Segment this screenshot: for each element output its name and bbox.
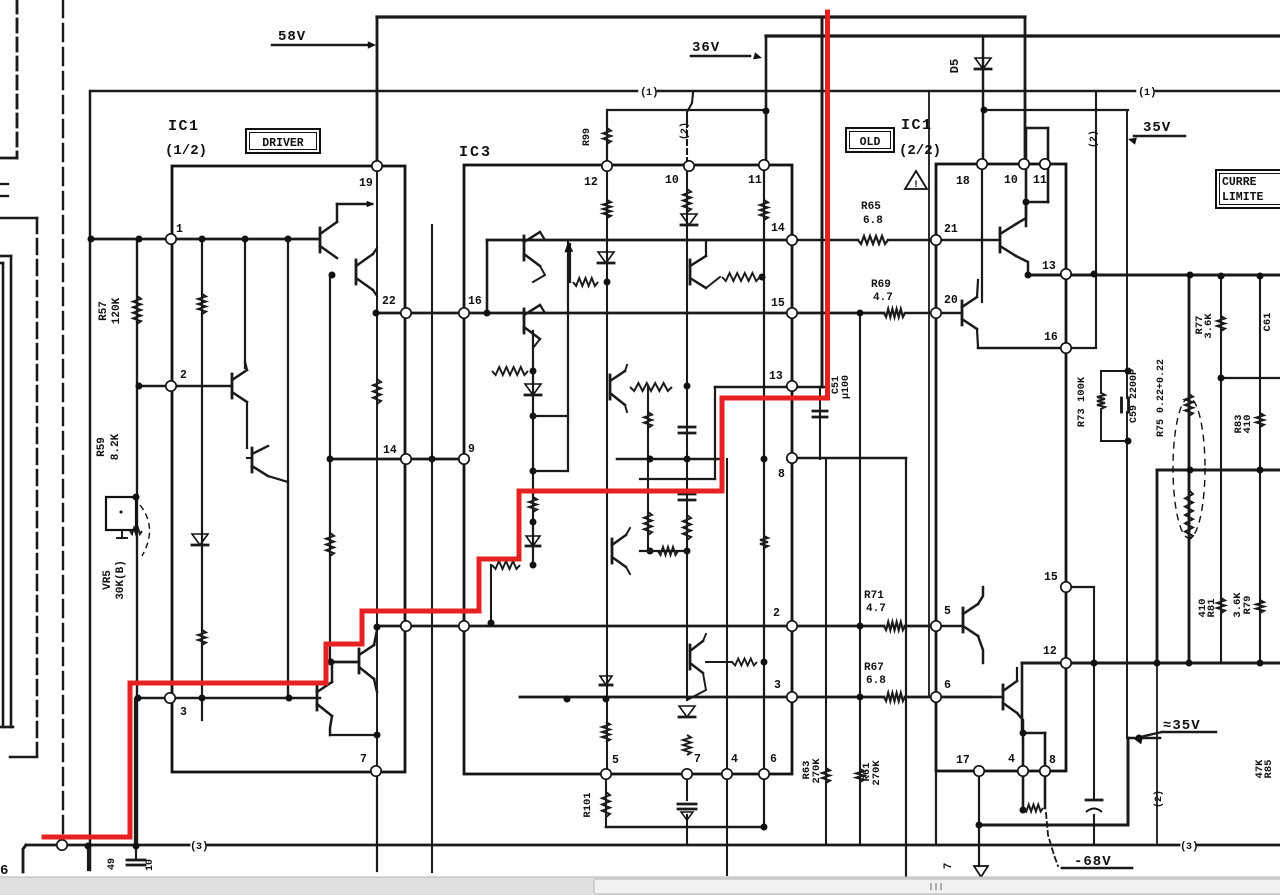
svg-text:49: 49	[107, 858, 118, 870]
svg-text:36V: 36V	[692, 40, 720, 56]
svg-text:C61: C61	[1262, 313, 1274, 332]
svg-text:3.6K: 3.6K	[1203, 313, 1215, 339]
svg-text:15: 15	[1044, 571, 1058, 584]
svg-text:IC1: IC1	[901, 117, 933, 134]
svg-text:16: 16	[1044, 331, 1058, 344]
svg-text:3: 3	[774, 679, 781, 692]
svg-text:4.7: 4.7	[873, 292, 893, 304]
svg-text:DRIVER: DRIVER	[262, 137, 304, 150]
svg-text:1: 1	[176, 223, 183, 236]
svg-text:5: 5	[944, 605, 951, 618]
svg-text:410: 410	[1242, 415, 1254, 434]
svg-text:10: 10	[145, 859, 156, 871]
svg-text:VR5: VR5	[102, 570, 114, 590]
svg-text:13: 13	[769, 370, 783, 383]
svg-text:6: 6	[944, 679, 951, 692]
svg-text:R71: R71	[864, 590, 884, 602]
svg-text:120K: 120K	[111, 297, 123, 324]
svg-text:17: 17	[956, 754, 970, 767]
svg-text:11: 11	[748, 174, 762, 187]
svg-text:(2): (2)	[1153, 790, 1165, 808]
svg-text:OLD: OLD	[860, 136, 881, 149]
svg-text:R59: R59	[96, 437, 108, 457]
svg-text:(2): (2)	[679, 122, 691, 140]
svg-text:10: 10	[665, 174, 679, 187]
svg-text:22: 22	[382, 295, 396, 308]
svg-text:R75 0.22+0.22: R75 0.22+0.22	[1156, 359, 1167, 437]
svg-text:5: 5	[612, 754, 619, 767]
svg-text:4.7: 4.7	[866, 603, 886, 615]
svg-text:58V: 58V	[278, 29, 306, 45]
svg-text:12: 12	[584, 176, 598, 189]
svg-text:6: 6	[770, 753, 777, 766]
svg-text:8: 8	[1049, 754, 1056, 767]
svg-text:21: 21	[944, 223, 958, 236]
svg-text:6.8: 6.8	[863, 215, 883, 227]
svg-text:19: 19	[359, 177, 373, 190]
svg-text:12: 12	[1043, 645, 1057, 658]
svg-text:C59 2200P: C59 2200P	[1129, 369, 1140, 423]
svg-text:): )	[652, 87, 659, 99]
svg-text:R99: R99	[582, 128, 593, 146]
svg-text:): )	[1192, 841, 1199, 853]
svg-text:R101: R101	[582, 792, 594, 817]
svg-text:R85: R85	[1263, 760, 1275, 779]
svg-text:LIMITE: LIMITE	[1222, 191, 1264, 204]
svg-text:30K(B): 30K(B)	[115, 560, 127, 600]
svg-text:!: !	[913, 180, 919, 191]
svg-text:20: 20	[944, 294, 958, 307]
svg-text:IC3: IC3	[459, 144, 492, 161]
svg-text:9: 9	[468, 443, 475, 456]
svg-text:R73 100K: R73 100K	[1076, 376, 1088, 427]
svg-text:): )	[1150, 87, 1157, 99]
svg-text:11: 11	[1033, 174, 1047, 187]
svg-text:(2): (2)	[1088, 130, 1100, 148]
svg-text:14: 14	[383, 444, 397, 457]
svg-text:(1/2): (1/2)	[165, 143, 207, 159]
svg-text:(2/2): (2/2)	[899, 143, 941, 159]
svg-text:2: 2	[180, 369, 187, 382]
svg-text:6.8: 6.8	[866, 675, 886, 687]
svg-text:14: 14	[771, 222, 785, 235]
svg-text:2: 2	[773, 607, 780, 620]
svg-text:8.2K: 8.2K	[110, 433, 122, 460]
svg-text:270K: 270K	[871, 760, 883, 786]
svg-text:7: 7	[943, 863, 955, 870]
svg-text:D5: D5	[948, 59, 962, 73]
svg-text:270K: 270K	[811, 758, 823, 784]
svg-text:R57: R57	[98, 301, 110, 321]
svg-text:35V: 35V	[1143, 120, 1171, 136]
svg-text:16: 16	[468, 295, 482, 308]
svg-text:15: 15	[771, 297, 785, 310]
svg-text:CURRE: CURRE	[1222, 176, 1257, 189]
svg-text:8: 8	[778, 468, 785, 481]
svg-text:R67: R67	[864, 662, 884, 674]
svg-text:18: 18	[956, 175, 970, 188]
svg-text:R79: R79	[1242, 596, 1254, 615]
svg-text:μ100: μ100	[841, 375, 852, 399]
svg-text:R69: R69	[871, 279, 891, 291]
svg-text:7: 7	[694, 753, 701, 766]
svg-text:): )	[202, 841, 209, 853]
svg-text:4: 4	[1008, 753, 1015, 766]
svg-text:IC1: IC1	[168, 118, 200, 135]
svg-text:4: 4	[731, 753, 738, 766]
svg-text:3: 3	[180, 706, 187, 719]
svg-text:10: 10	[1004, 174, 1018, 187]
svg-text:R65: R65	[861, 201, 881, 213]
svg-text:13: 13	[1042, 260, 1056, 273]
svg-text:7: 7	[360, 753, 367, 766]
